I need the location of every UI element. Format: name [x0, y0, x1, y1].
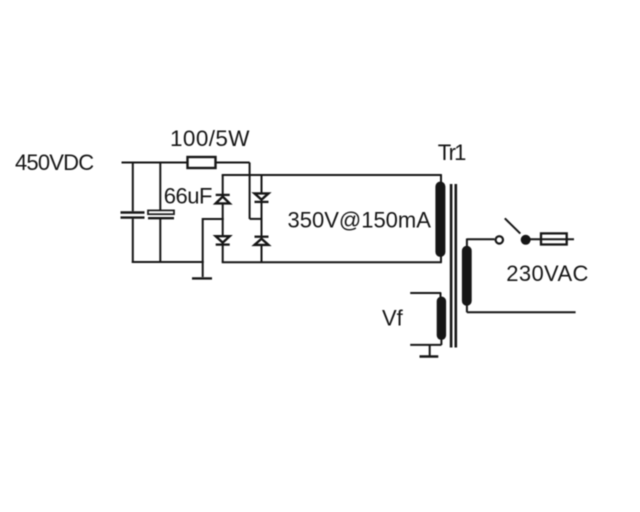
- switch S1 lever: [505, 218, 521, 233]
- switch S1 fixed contact: [496, 236, 503, 243]
- wire: Vf top lead: [410, 292, 441, 294]
- wire: ground rail under capacitors: [132, 261, 204, 263]
- wire: primary top lead to switch: [467, 238, 495, 240]
- svg-text:Vf: Vf: [382, 306, 404, 331]
- wire: +450V feed from label to rectifier drop: [122, 162, 250, 164]
- diode D4 bottom-right: [255, 237, 269, 245]
- wire: DC midpoint link to right bridge column: [250, 218, 262, 220]
- wire: capacitor C2 branch: [159, 162, 161, 264]
- wire: bridge left column: [222, 175, 224, 262]
- transformer core: [451, 184, 456, 348]
- wire: AC midpoint link to left bridge column: [203, 218, 224, 220]
- svg-text:450VDC: 450VDC: [15, 150, 94, 175]
- wire: primary bottom lead: [467, 311, 576, 313]
- wire: HV secondary top rail: [222, 174, 442, 176]
- wire: ground stem: [202, 218, 204, 277]
- transformer secondary HV winding: [435, 175, 445, 263]
- transformer primary winding: [462, 239, 472, 313]
- svg-text:100/5W: 100/5W: [170, 126, 250, 151]
- transformer Vf winding: [437, 293, 446, 346]
- resistor R1 body: [188, 157, 216, 168]
- wire: Vf ground stem: [429, 345, 431, 356]
- capacitor C1 plates: [121, 213, 145, 218]
- svg-text:Tr1: Tr1: [438, 140, 466, 165]
- ground symbol main: [192, 277, 212, 279]
- wire: HV secondary bottom rail: [222, 261, 442, 263]
- diode D3 bottom-left: [216, 236, 230, 244]
- wire: capacitor C1 branch: [132, 162, 134, 264]
- wire: bridge right column: [261, 175, 263, 262]
- svg-text:350V@150mA: 350V@150mA: [288, 207, 432, 232]
- capacitor C2 electrolytic plates: [148, 210, 174, 218]
- diode D2 top-right: [255, 193, 269, 202]
- ground symbol Vf: [420, 355, 439, 357]
- svg-text:230VAC: 230VAC: [506, 261, 588, 286]
- switch S1 moving contact dot: [521, 235, 531, 245]
- wire: rectifier output drop: [249, 163, 251, 220]
- diode D1 top-left: [216, 195, 230, 204]
- svg-text:66uF: 66uF: [164, 184, 212, 209]
- fuse F1: [530, 233, 575, 244]
- wire: Vf bottom lead: [410, 344, 441, 346]
